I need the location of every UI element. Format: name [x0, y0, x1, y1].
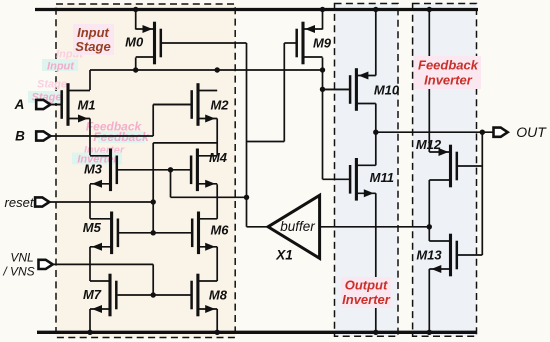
port VNL/VNS — [39, 260, 53, 269]
wire: gate tap vertical x=170.5 — [170, 170, 172, 198]
transistor M12 — [449, 145, 452, 188]
wire: M13 gate link — [457, 254, 482, 256]
wire: M9 drain to node — [322, 58, 324, 71]
svg-text:M12: M12 — [416, 137, 442, 152]
svg-text:M9: M9 — [313, 36, 332, 51]
wire: feedback gate vertical x=482.3 — [481, 132, 483, 255]
wire: buffer input line y=227 — [320, 226, 430, 228]
svg-text:Input: Input — [47, 61, 75, 73]
junction M7-M8 gates / VNS — [151, 292, 156, 297]
wire: M1 source drop x=90 — [89, 119, 91, 156]
svg-text:B: B — [15, 129, 25, 144]
junction top rail / M10 source — [373, 7, 378, 12]
wire: M13 source drop to rail — [428, 269, 430, 332]
svg-text:buffer: buffer — [280, 219, 315, 234]
wire: M1 drain riser x=90 — [89, 70, 91, 90]
wire: M6 source drop x=217.2 — [216, 247, 218, 281]
svg-text:M2: M2 — [210, 98, 229, 113]
wire: M10 gate lead link — [323, 88, 351, 90]
wire: M5-M6 gate line — [118, 232, 192, 234]
wire: VDD top rail — [35, 8, 478, 11]
transistor M11 — [355, 158, 358, 201]
wire: VNS riser x=153.2 — [152, 264, 154, 295]
wire: M12 source from rail — [428, 10, 430, 153]
wire: B horizontal y=136 — [50, 135, 153, 137]
svg-text:M7: M7 — [83, 287, 102, 302]
svg-text:M1: M1 — [77, 98, 95, 113]
label Feedback Inverter — [414, 56, 481, 89]
junction bottom rail / M11 source — [373, 330, 378, 335]
wire: M0 gate vertical x=246.5 — [246, 43, 248, 197]
port reset — [35, 197, 49, 206]
wire: reset wire — [49, 201, 154, 203]
svg-text:M4: M4 — [209, 150, 228, 165]
wire: OUT line — [376, 131, 495, 133]
wire: VNL/VNS wire — [52, 263, 154, 265]
junction M5-M6 gates — [151, 230, 156, 235]
wire: M3-M4 gate line — [118, 169, 191, 171]
transistor M2 — [196, 83, 199, 126]
wire: M11 drain riser — [375, 132, 377, 165]
wire: A to M1 gate — [50, 104, 62, 106]
svg-text:Inverter: Inverter — [342, 292, 391, 307]
svg-text:Stage: Stage — [75, 39, 110, 54]
svg-text:reset: reset — [5, 195, 35, 210]
wire: M4 source drop x=217.2 — [216, 184, 218, 197]
junction node / M2 drain — [215, 67, 220, 72]
transistor M10 — [355, 68, 358, 111]
wire: node line M0/M1/M2 drains to M9 drain (y=70) — [90, 69, 323, 71]
wire: M2 source drop x=217.2 — [216, 119, 218, 156]
svg-text:A: A — [14, 97, 25, 112]
ghost text Inverter (highlight) — [72, 153, 122, 165]
wire: B riser x=153.2 — [152, 105, 154, 137]
svg-text:M10: M10 — [374, 83, 400, 98]
svg-text:Output: Output — [345, 278, 388, 293]
svg-text:Input: Input — [77, 25, 109, 40]
transistor M1 — [66, 83, 69, 126]
svg-text:M0: M0 — [125, 35, 144, 50]
junction OUT node — [373, 130, 378, 135]
label Output Inverter — [341, 277, 391, 308]
transistor M9 — [301, 22, 304, 65]
junction bottom rail / M7 source — [87, 330, 92, 335]
region: Output Inverter dashed box — [335, 4, 399, 337]
transistor M5 — [110, 212, 113, 255]
junction bottom rail / M13 source — [427, 330, 432, 335]
port A — [36, 100, 50, 109]
wire: M0 drain drop — [135, 58, 137, 71]
ghost text Stage (highlight) — [28, 91, 64, 103]
ghost text Feedback (highlight) — [98, 131, 145, 143]
junction reset / M4 drain net — [151, 199, 156, 204]
wire: M5 source drop x=90 — [89, 247, 91, 281]
wire: buffer out to tip — [247, 226, 269, 228]
wire: M6 drain riser x=217.2 — [216, 197, 218, 219]
wire: M13 drain riser — [428, 227, 430, 241]
junction M10 gate tap — [320, 87, 325, 92]
transistor M3 — [109, 149, 112, 192]
wire: M4 drain net vertical x=153.2 — [152, 143, 154, 233]
wire: node to M10 gate vertical — [322, 70, 324, 179]
port B — [36, 131, 50, 140]
svg-text:Inverter: Inverter — [424, 73, 473, 88]
svg-text:Stage: Stage — [37, 79, 67, 91]
junction gate line tap — [168, 167, 173, 172]
wire: M10 source from rail — [375, 10, 377, 76]
transistor M6 — [197, 212, 200, 255]
wire: M0 source from rail — [135, 10, 137, 30]
svg-text:M5: M5 — [83, 220, 102, 235]
wire: M11 source drop to rail — [375, 193, 377, 332]
wire: M10 drain drop — [375, 104, 377, 133]
svg-text:VNL: VNL — [10, 251, 33, 265]
junction OUT / feedback gates — [480, 130, 485, 135]
junction top rail / M12 source — [427, 7, 432, 12]
wire: M12 drain drop — [428, 180, 430, 227]
svg-text:/ VNS: / VNS — [2, 265, 34, 279]
label Input Stage — [73, 24, 114, 55]
junction buffer in / feedback out — [427, 224, 432, 229]
wire: cross link y=142.9 — [153, 142, 217, 144]
wire: M9 gate vertical x=284.3 — [283, 43, 285, 142]
svg-text:M13: M13 — [416, 248, 442, 263]
junction buffer out / M0 gate — [244, 195, 249, 200]
svg-text:M3: M3 — [84, 162, 103, 177]
port OUT — [494, 128, 508, 137]
transistor M0 — [153, 22, 156, 65]
svg-text:Feedback: Feedback — [418, 58, 479, 73]
wire: M9 source from rail — [322, 10, 324, 30]
junction top rail / M0 source — [133, 7, 138, 12]
junction node / M0 drain — [133, 67, 138, 72]
wire: M7-M8 gate line — [118, 294, 191, 296]
junction top rail / M9 source — [320, 7, 325, 12]
wire: VSS bottom rail — [37, 331, 477, 334]
transistor M4 — [196, 149, 199, 192]
svg-text:OUT: OUT — [516, 124, 547, 140]
transistor M8 — [196, 274, 199, 317]
junction node / M9 drain — [320, 67, 325, 72]
wire: M12 gate link — [457, 165, 482, 167]
svg-text:M6: M6 — [210, 223, 229, 238]
region: Input Stage dashed box — [56, 4, 235, 338]
wire: M8 source drop to rail — [216, 309, 218, 332]
wire: M7 source drop to rail — [89, 309, 91, 332]
svg-text:X1: X1 — [275, 248, 293, 263]
ghost text Input (highlight) — [42, 59, 78, 71]
transistor M7 — [108, 274, 111, 317]
buffer X1 triangle — [268, 195, 320, 258]
wire: M3 source drop x=90 — [89, 184, 91, 219]
wire: B to M2 gate — [153, 104, 191, 106]
wire: M0 gate lead to x=246.5 — [162, 42, 247, 44]
wire: buffer out drop to y=227 — [246, 197, 248, 227]
transistor M13 — [449, 234, 452, 277]
wire: M9 gate link y=141.5 — [247, 141, 285, 143]
junction bottom rail / M8 source — [215, 330, 220, 335]
svg-text:M11: M11 — [370, 170, 394, 185]
wire: latch node y=197.3 — [171, 196, 247, 198]
svg-text:M8: M8 — [209, 288, 228, 303]
svg-text:Feedback: Feedback — [93, 130, 150, 144]
region: Feedback Inverter dashed box — [413, 4, 477, 337]
